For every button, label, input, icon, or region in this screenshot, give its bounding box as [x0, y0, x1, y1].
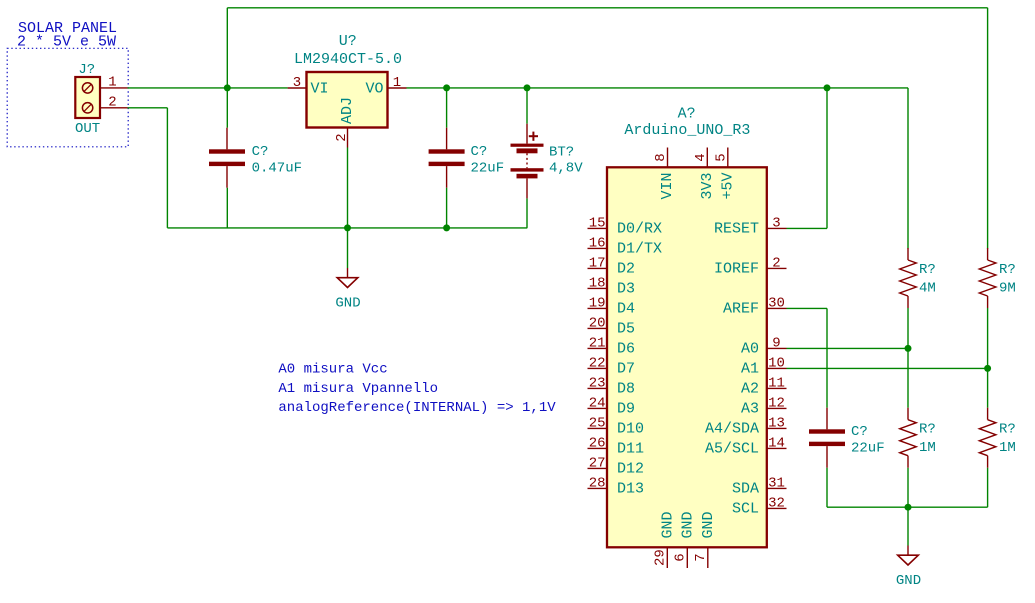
svg-text:30: 30 [768, 295, 785, 311]
svg-text:2: 2 [108, 95, 116, 111]
svg-text:22: 22 [589, 355, 606, 371]
svg-text:D5: D5 [617, 320, 635, 337]
svg-text:20: 20 [589, 315, 606, 331]
pin 4 (3V3) [693, 148, 716, 200]
svg-text:IOREF: IOREF [714, 260, 759, 277]
svg-text:SCL: SCL [732, 500, 759, 517]
wire A0 [787, 347, 909, 349]
wire down to R 4M [907, 88, 909, 249]
svg-text:R?: R? [999, 262, 1016, 278]
svg-text:A1 misura Vpannello: A1 misura Vpannello [278, 381, 438, 397]
svg-text:A5/SCL: A5/SCL [705, 440, 759, 457]
svg-text:9M: 9M [999, 281, 1016, 297]
svg-text:D8: D8 [617, 380, 635, 397]
junction node D [824, 84, 831, 91]
svg-text:D3: D3 [617, 280, 635, 297]
svg-text:9: 9 [772, 335, 780, 351]
svg-text:D10: D10 [617, 420, 644, 437]
svg-text:D1/TX: D1/TX [617, 240, 662, 257]
svg-text:4M: 4M [919, 281, 936, 297]
svg-text:VIN: VIN [659, 172, 676, 199]
resistor R 4M [900, 248, 917, 308]
svg-text:+5V: +5V [720, 172, 737, 199]
pin 32 (SCL) [732, 495, 787, 517]
svg-text:C?: C? [252, 144, 269, 160]
svg-text:A2: A2 [741, 380, 759, 397]
wire J pin2 down [166, 108, 168, 228]
pin 16 (D1/TX) [588, 235, 663, 257]
pin 18 (D3) [588, 275, 636, 297]
wire C1 bottom [226, 188, 228, 228]
svg-text:D9: D9 [617, 400, 635, 417]
ground GND mid [335, 268, 360, 312]
op-amp U1 regulator LM2940 body [307, 72, 388, 128]
svg-text:17: 17 [589, 255, 606, 271]
wire BT bottom [526, 198, 528, 228]
pin 19 (D4) [588, 295, 636, 317]
wire vertical to R 9M [987, 8, 989, 249]
svg-text:2: 2 [772, 255, 780, 271]
svg-text:U?: U? [339, 33, 357, 50]
svg-text:A1: A1 [741, 360, 759, 377]
svg-text:GND: GND [700, 511, 717, 538]
svg-text:1: 1 [393, 75, 401, 91]
junction node G [905, 345, 912, 352]
svg-text:LM2940CT-5.0: LM2940CT-5.0 [294, 51, 402, 68]
svg-text:4: 4 [693, 153, 709, 161]
pin 1 VO [365, 75, 406, 98]
svg-text:J?: J? [78, 62, 95, 78]
svg-text:2: 2 [334, 133, 350, 141]
pin 31 (SDA) [732, 475, 787, 497]
pin 1 of J [100, 75, 128, 91]
svg-text:21: 21 [589, 335, 606, 351]
svg-text:BT?: BT? [549, 145, 574, 161]
svg-text:27: 27 [589, 455, 606, 471]
wire J pin1 to VI [128, 87, 288, 89]
svg-text:AREF: AREF [723, 300, 759, 317]
pin 3 VI [288, 75, 329, 98]
svg-text:10: 10 [768, 355, 785, 371]
svg-text:RESET: RESET [714, 220, 759, 237]
svg-text:D13: D13 [617, 480, 644, 497]
wire R1M left bottom [907, 468, 909, 508]
wire R1M right bottom [987, 468, 989, 508]
pin 6 (GND) [672, 511, 696, 568]
svg-text:GND: GND [896, 573, 921, 589]
svg-text:R?: R? [999, 422, 1016, 438]
svg-text:28: 28 [589, 475, 606, 491]
svg-text:D12: D12 [617, 460, 644, 477]
pin 20 (D5) [588, 315, 636, 337]
resistor R 9M [979, 248, 996, 308]
wire to R1M right top [987, 368, 989, 407]
pin 12 (A3) [741, 395, 787, 417]
pin 30 (AREF) [723, 295, 787, 317]
wire ADJ to GND rail [347, 148, 349, 228]
svg-text:GND: GND [679, 511, 696, 538]
svg-text:VI: VI [311, 81, 329, 98]
wire top net VIN [227, 7, 987, 9]
connector J1 screw terminal [75, 77, 100, 118]
wire to R1M left top [907, 348, 909, 407]
pin 14 (A5/SCL) [705, 435, 787, 457]
wire R9M bottom [987, 308, 989, 368]
svg-text:A?: A? [678, 106, 696, 123]
svg-text:D0/RX: D0/RX [617, 220, 662, 237]
pin 28 (D13) [588, 475, 645, 497]
pin 29 (GND) [652, 511, 676, 568]
svg-text:3: 3 [772, 215, 780, 231]
pin 13 (A4/SDA) [705, 415, 787, 437]
svg-text:SDA: SDA [732, 480, 759, 497]
pin 17 (D2) [588, 255, 636, 277]
pin 2 of J [100, 95, 128, 111]
svg-text:D2: D2 [617, 260, 635, 277]
pin 21 (D6) [588, 335, 636, 357]
svg-text:3: 3 [293, 75, 301, 91]
junction node C [524, 84, 531, 91]
wire C3 bottom [826, 468, 828, 508]
pin 10 (A1) [741, 355, 787, 377]
svg-text:24: 24 [589, 395, 606, 411]
svg-text:OUT: OUT [75, 121, 100, 137]
svg-text:VO: VO [365, 81, 383, 98]
wire to C1 top [226, 88, 228, 128]
pin 2 (IOREF) [714, 255, 787, 277]
pin 7 (GND) [693, 511, 717, 568]
wire A1 [787, 367, 988, 369]
wire AREF horizontal [787, 307, 828, 309]
svg-text:26: 26 [589, 435, 606, 451]
wire to C2 top [446, 88, 448, 128]
svg-text:analogReference(INTERNAL) => 1: analogReference(INTERNAL) => 1,1V [278, 400, 556, 416]
resistor R 1M left [900, 408, 917, 468]
wire to ground symbol [347, 228, 349, 268]
pin 22 (D7) [588, 355, 636, 377]
battery BT? [511, 124, 544, 199]
pin 8 (VIN) [653, 148, 676, 200]
pin 2 ADJ [334, 97, 356, 148]
capacitor C3 22uF [809, 408, 845, 468]
capacitor C1 0.47uF [209, 128, 245, 188]
svg-text:23: 23 [589, 375, 606, 391]
svg-text:GND: GND [659, 511, 676, 538]
wire bottom right GND rail [827, 506, 988, 508]
svg-text:6: 6 [672, 553, 688, 561]
wire R4M bottom [907, 308, 909, 348]
svg-text:ADJ: ADJ [339, 97, 356, 124]
pin 11 (A2) [741, 375, 787, 397]
svg-text:15: 15 [589, 215, 606, 231]
svg-text:R?: R? [919, 422, 936, 438]
svg-text:D6: D6 [617, 340, 635, 357]
svg-text:18: 18 [589, 275, 606, 291]
svg-text:8: 8 [653, 153, 669, 161]
svg-text:25: 25 [589, 415, 606, 431]
wire J pin2 right [128, 107, 168, 109]
junction node B [443, 84, 450, 91]
wire to BT top [526, 88, 528, 124]
svg-text:R?: R? [919, 262, 936, 278]
svg-text:11: 11 [768, 375, 785, 391]
graphic dashed box solar panel [7, 48, 128, 147]
svg-text:1: 1 [108, 75, 116, 91]
svg-text:C?: C? [471, 144, 488, 160]
svg-text:22uF: 22uF [471, 161, 505, 177]
svg-text:D11: D11 [617, 440, 644, 457]
svg-text:32: 32 [768, 495, 785, 511]
svg-text:Arduino_UNO_R3: Arduino_UNO_R3 [624, 122, 750, 139]
pin 23 (D8) [588, 375, 636, 397]
pin 15 (D0/RX) [588, 215, 663, 237]
svg-text:31: 31 [768, 475, 785, 491]
wire vertical left of top net [226, 8, 228, 88]
pin 5 (+5V) [714, 148, 737, 200]
wire C2 bottom [446, 188, 448, 228]
pin 26 (D11) [588, 435, 645, 457]
IC A? Arduino_UNO_R3 body [607, 167, 767, 547]
svg-text:0.47uF: 0.47uF [252, 161, 302, 177]
svg-text:A0 misura Vcc: A0 misura Vcc [278, 362, 387, 378]
wire VO 5V rail [407, 87, 909, 89]
junction node A [224, 84, 231, 91]
svg-text:3V3: 3V3 [699, 172, 716, 199]
capacitor C2 22uF [429, 128, 465, 188]
svg-text:19: 19 [589, 295, 606, 311]
wire AREF down to C3 [826, 308, 828, 407]
pin 3 (RESET) [714, 215, 787, 237]
junction node F [443, 224, 450, 231]
svg-text:1M: 1M [999, 440, 1016, 456]
junction node I [905, 504, 912, 511]
wire RESET vertical [826, 88, 828, 229]
svg-text:A3: A3 [741, 400, 759, 417]
svg-text:5: 5 [714, 153, 730, 161]
svg-text:A0: A0 [741, 340, 759, 357]
svg-text:4,8V: 4,8V [549, 160, 583, 176]
svg-text:D4: D4 [617, 300, 635, 317]
ground GND right [896, 546, 921, 590]
pin 24 (D9) [588, 395, 636, 417]
pin 9 (A0) [741, 335, 787, 357]
svg-text:29: 29 [652, 549, 668, 566]
wire bottom GND rail [167, 227, 527, 229]
wire RESET horizontal [787, 227, 828, 229]
svg-text:7: 7 [693, 553, 709, 561]
pin 27 (D12) [588, 455, 645, 477]
resistor R 1M right [979, 408, 996, 468]
svg-text:16: 16 [589, 235, 606, 251]
svg-text:12: 12 [768, 395, 785, 411]
svg-text:A4/SDA: A4/SDA [705, 420, 759, 437]
svg-text:1M: 1M [919, 440, 936, 456]
junction node H [984, 365, 991, 372]
svg-text:GND: GND [335, 296, 360, 312]
svg-text:22uF: 22uF [851, 441, 885, 457]
svg-text:C?: C? [851, 424, 868, 440]
svg-text:13: 13 [768, 415, 785, 431]
pin 25 (D10) [588, 415, 645, 437]
svg-text:14: 14 [768, 435, 785, 451]
junction node E [344, 224, 351, 231]
wire to ground right [907, 507, 909, 545]
svg-text:D7: D7 [617, 360, 635, 377]
